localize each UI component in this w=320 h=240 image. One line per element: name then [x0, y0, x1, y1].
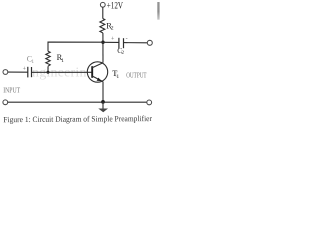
capacitor C1 — [28, 67, 32, 78]
bottom rail terminal left — [3, 100, 8, 105]
svg-text:INPUT: INPUT — [3, 86, 20, 95]
wire R1 bottom to base node — [47, 66, 49, 72]
resistor R1 — [46, 51, 50, 66]
watermark — [32, 66, 118, 81]
svg-text:1: 1 — [116, 74, 119, 80]
node emitter ground junction — [101, 100, 105, 104]
wire R2 to collector node — [102, 33, 104, 63]
right edge artifact — [157, 2, 159, 20]
label C1 — [27, 54, 35, 65]
svg-text:1: 1 — [31, 59, 34, 65]
svg-text:OUTPUT: OUTPUT — [126, 71, 147, 79]
supply terminal +12V — [100, 2, 105, 7]
wire C1 to base — [32, 71, 93, 73]
node collector junction — [101, 41, 104, 44]
label T1 — [112, 69, 119, 80]
resistor R2 — [100, 19, 105, 33]
svg-text:Figure 1: Circuit Diagram of S: Figure 1: Circuit Diagram of Simple Prea… — [3, 114, 152, 124]
svg-text:+: + — [111, 36, 115, 42]
svg-text:2: 2 — [121, 50, 124, 56]
label C2 — [117, 46, 124, 56]
capacitor C2 — [119, 38, 124, 49]
wire emitter to ground rail — [102, 82, 104, 102]
wire C2 to output terminal — [124, 42, 148, 44]
wire input to C1 — [8, 71, 28, 73]
wire supply to R2 — [102, 7, 104, 18]
ground — [98, 102, 108, 112]
bottom rail terminal right — [147, 100, 152, 105]
svg-text:ngineerin: ngineerin — [32, 66, 87, 81]
svg-text:-: - — [126, 36, 128, 42]
label R2 — [106, 21, 113, 31]
svg-text:+: + — [23, 66, 27, 72]
input terminal — [3, 70, 8, 75]
node base junction — [47, 71, 50, 74]
wire R1 top to collector node — [48, 42, 103, 51]
svg-text:2: 2 — [111, 26, 114, 32]
wire bottom rail — [8, 101, 147, 103]
svg-text:1: 1 — [61, 58, 64, 64]
output terminal — [147, 40, 152, 45]
label R1 — [57, 53, 65, 64]
svg-text:+12V: +12V — [107, 1, 123, 11]
wire collector node to C2 — [103, 41, 119, 43]
transistor T1 — [87, 62, 107, 82]
